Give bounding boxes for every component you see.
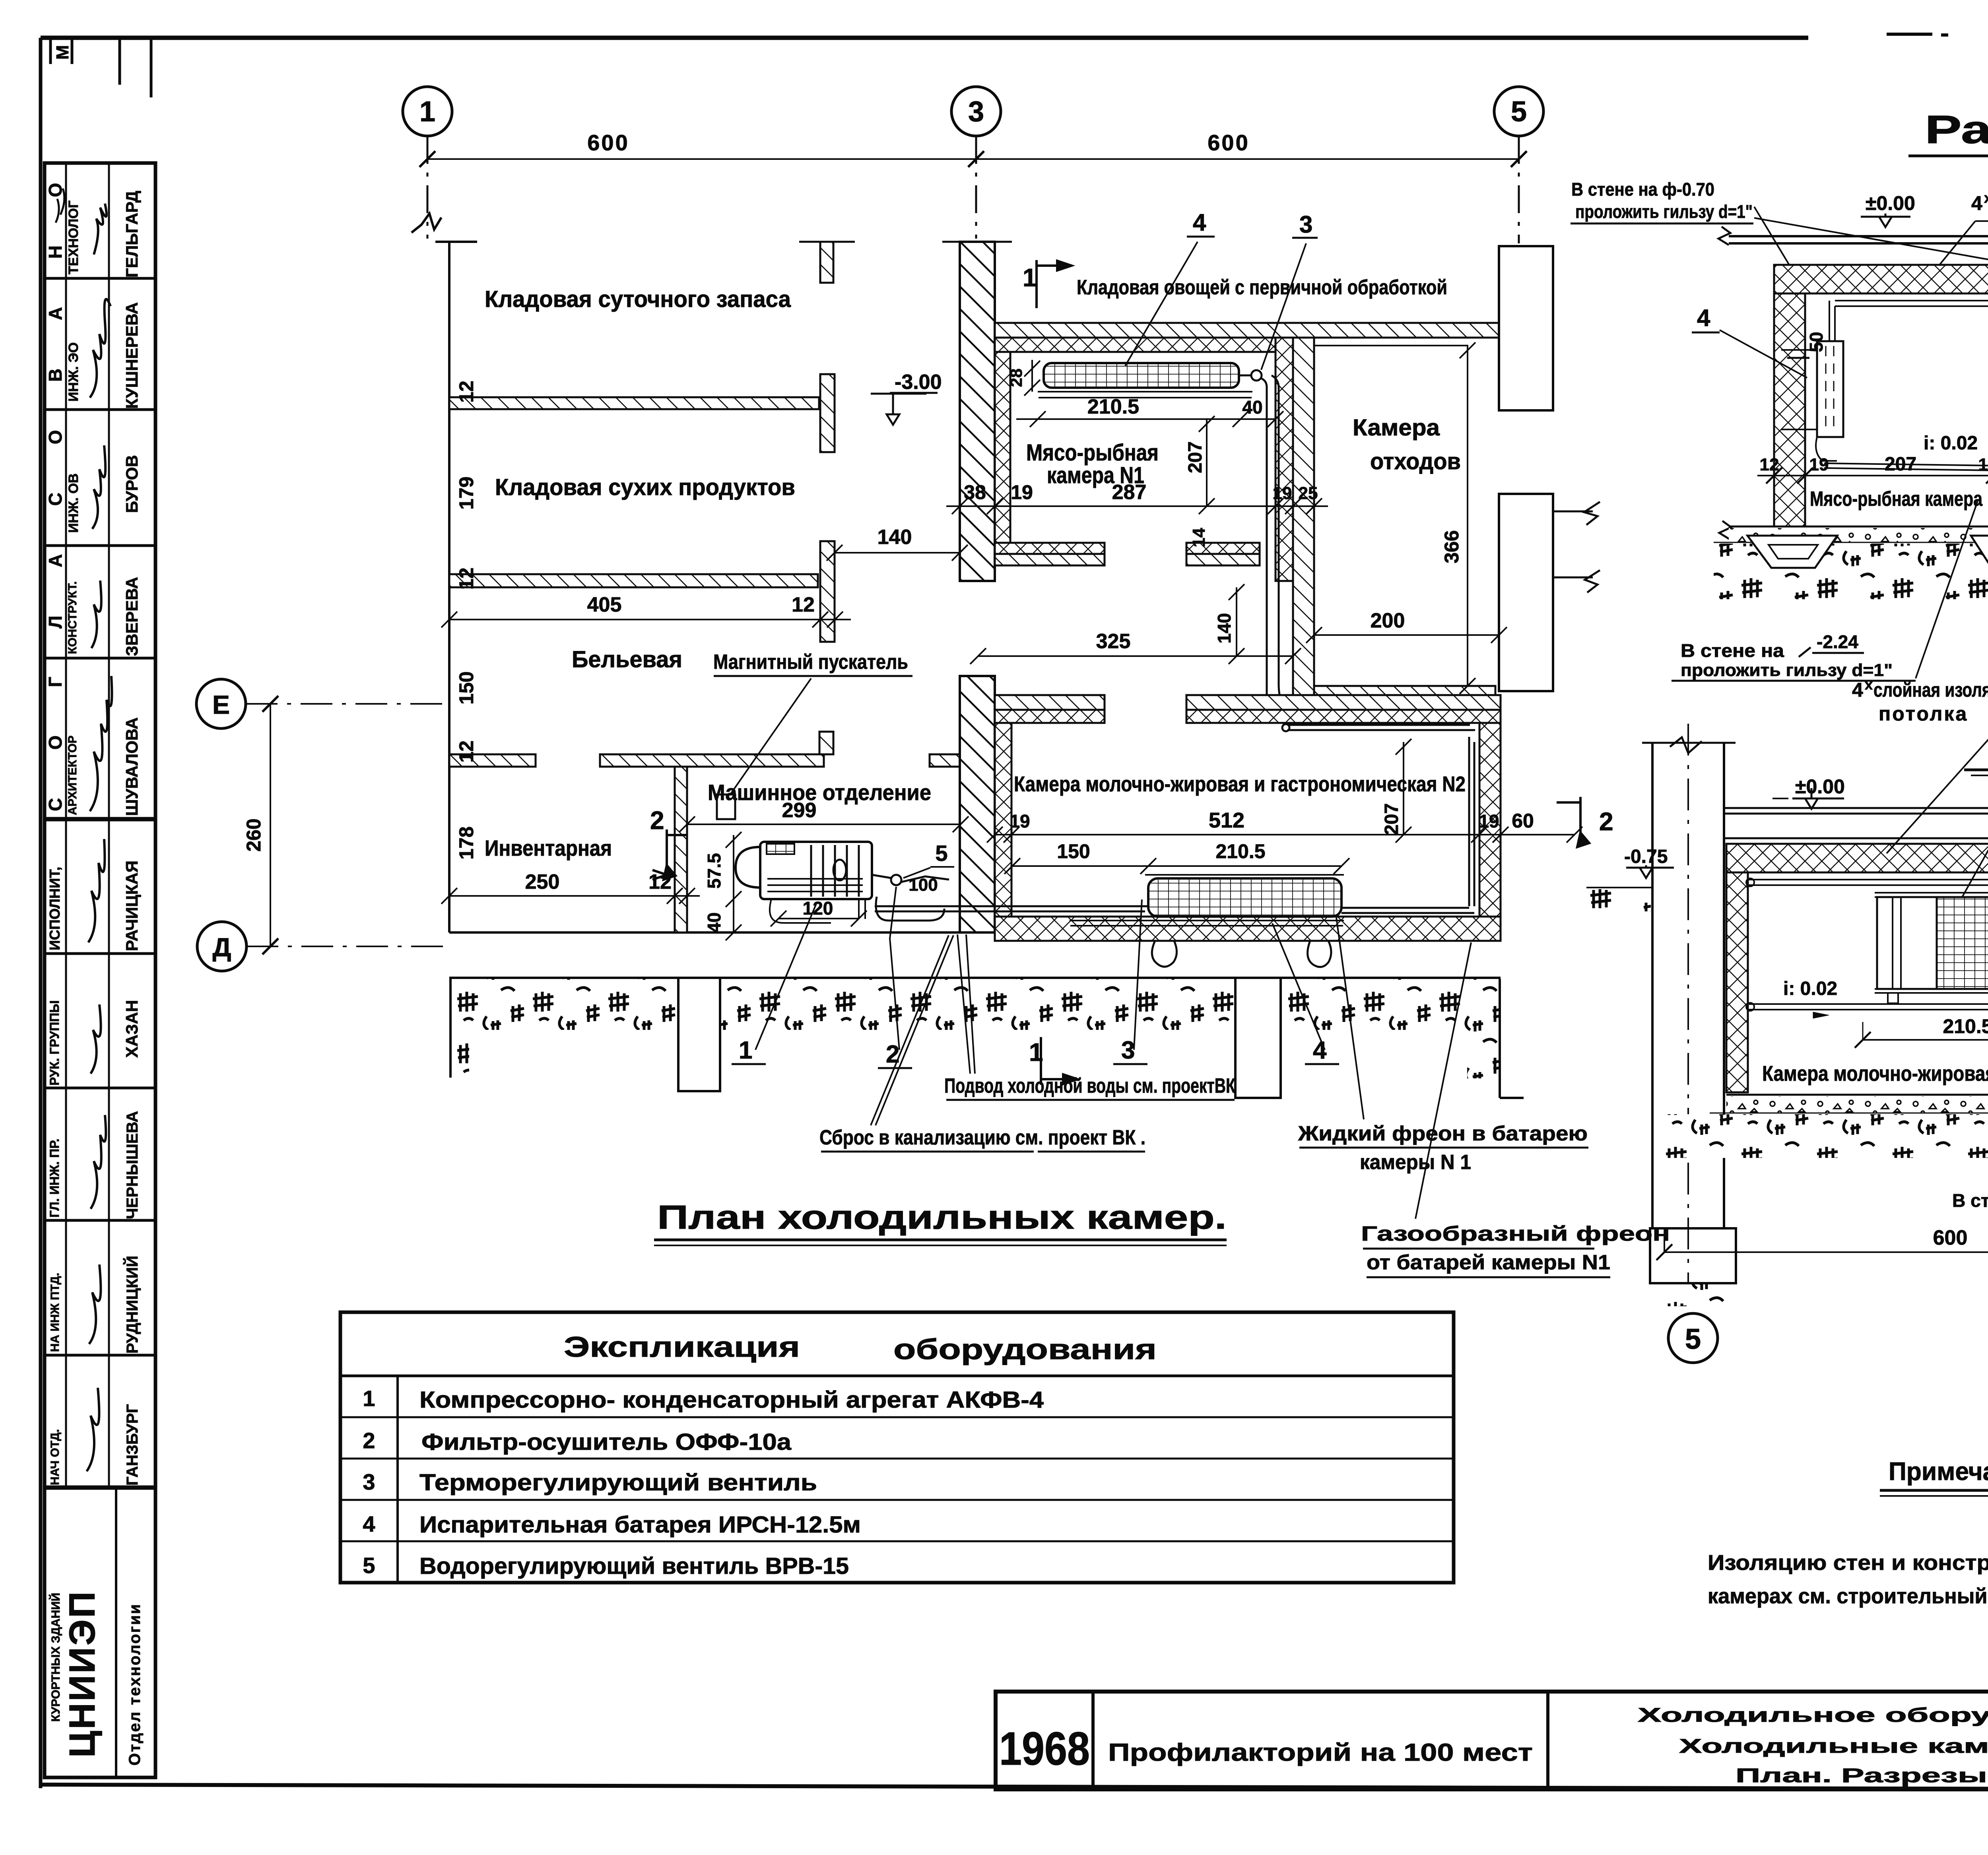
signatures squiggles [56, 188, 112, 1471]
chamber N2 right insulation [1479, 723, 1501, 941]
svg-text:366: 366 [1441, 530, 1463, 563]
-3.00 level mark plan [871, 394, 926, 425]
svg-text:ЧЕРНЫШЕВА: ЧЕРНЫШЕВА [124, 1111, 141, 1219]
dim line 210.5/150 [1863, 1039, 1988, 1041]
svg-text:ТЕХНОЛОГ: ТЕХНОЛОГ [66, 200, 81, 274]
valve + small lines right of unit [891, 875, 901, 885]
dim line 325 [978, 655, 1293, 657]
svg-text:Магнитный пускатель: Магнитный пускатель [713, 651, 908, 674]
svg-text:12: 12 [455, 567, 478, 590]
svg-text:ЗВЕРЕВА: ЗВЕРЕВА [122, 577, 141, 656]
svg-text:50: 50 [1806, 332, 1827, 352]
svg-text:40: 40 [1242, 397, 1262, 418]
svg-text:1: 1 [739, 1037, 752, 1064]
break symbol on axis 1 [412, 214, 441, 233]
chamber N2 bottom wall [995, 917, 1501, 941]
svg-text:Примечание: Примечание [1889, 1457, 1988, 1486]
dim 366 vertical waste chamber [1460, 342, 1475, 694]
svg-text:200: 200 [1371, 609, 1405, 632]
svg-text:Камера молочно-жировая и га: Камера молочно-жировая и гастрономическа… [1762, 1062, 1988, 1086]
svg-text:Компрессорно- конденсаторный: Компрессорно- конденсаторный агрегат АКФ… [419, 1387, 1044, 1413]
svg-text:Кладовая овощей с первичной: Кладовая овощей с первичной обработкой [1077, 276, 1447, 299]
svg-text:4: 4 [1852, 679, 1864, 701]
leaders from labels to parts [755, 902, 817, 1050]
left exterior wall [435, 242, 477, 932]
freon riser pipes from N1 [1262, 375, 1284, 706]
svg-text:х: х [1984, 190, 1988, 206]
wall break ticks right of pillar [1553, 502, 1600, 592]
sloped floor pipe [1824, 463, 1988, 476]
svg-text:Инвентарная: Инвентарная [485, 835, 612, 860]
top pillar stub at x2066 [820, 242, 833, 283]
svg-text:140: 140 [1214, 613, 1235, 644]
svg-text:-3.00: -3.00 [895, 371, 942, 394]
svg-text:60: 60 [1512, 810, 1534, 832]
svg-text:Водорегулирующий вентиль ВРВ: Водорегулирующий вентиль ВРВ-15 [419, 1553, 849, 1579]
+-0.00 level flag [1861, 214, 1910, 227]
svg-text:2: 2 [886, 1041, 899, 1068]
svg-text:38: 38 [964, 481, 986, 503]
left column axis5 [1652, 743, 1724, 1228]
grid axis stems dash-dot [427, 136, 429, 239]
svg-text:12: 12 [455, 381, 478, 403]
svg-text:150: 150 [455, 671, 478, 704]
label underlines [732, 1064, 1339, 1068]
svg-text:В стене на: В стене на [1681, 640, 1784, 661]
chamber N1 bottom stub left [995, 543, 1105, 554]
svg-text:Мясо-рыбная: Мясо-рыбная [1026, 440, 1159, 466]
svg-text:Фильтр-осушитель ОФФ-10а: Фильтр-осушитель ОФФ-10а [421, 1429, 792, 1455]
svg-text:12: 12 [1760, 455, 1779, 474]
svg-text:камеры N 1: камеры N 1 [1360, 1151, 1471, 1174]
svg-text:120: 120 [803, 898, 833, 919]
svg-text:5: 5 [935, 841, 947, 866]
section mark 2 right [1557, 797, 1580, 845]
svg-text:Сброс в канализацию см. пр: Сброс в канализацию см. проект ВК . [819, 1126, 1145, 1149]
grid circle E [196, 679, 246, 728]
plan bottom floor line [449, 931, 961, 934]
svg-text:5: 5 [1685, 1323, 1701, 1355]
sheet frame top line [41, 36, 1808, 40]
svg-text:КУШНЕРЕВА: КУШНЕРЕВА [122, 302, 141, 409]
plan room labels and annotations [485, 276, 1670, 1274]
svg-text:4: 4 [1697, 305, 1710, 331]
svg-text:150: 150 [1057, 840, 1090, 862]
compressor unit AKFV-4 plan [760, 842, 872, 899]
svg-text:179: 179 [455, 476, 478, 509]
top pipe [1835, 301, 1988, 306]
chamber N2 left insulation [995, 723, 1011, 917]
svg-text:207: 207 [1885, 454, 1916, 475]
dim line 405/12 [449, 619, 851, 620]
ceiling slab [1724, 808, 1988, 838]
260 vertical dim line [270, 704, 271, 946]
dim 600 [1664, 1251, 1988, 1253]
svg-text:2: 2 [1599, 807, 1613, 836]
chamber N2 top wall (diag+cross) with door gap [995, 695, 1105, 710]
dim 207 vertical N1 [1199, 416, 1215, 514]
pillar at band1 end [820, 374, 835, 452]
leaders 4 3 2 1 [1962, 794, 1988, 897]
strip column dividers [66, 163, 109, 1488]
svg-text:Профилакторий на 100 мест: Профилакторий на 100 мест [1108, 1739, 1533, 1766]
svg-text:ЦНИИЭП: ЦНИИЭП [62, 1590, 103, 1758]
left battery section [1817, 341, 1843, 437]
dim line 210.5/40 chamber N1 [1016, 418, 1276, 420]
interior wall band 2 (12) [449, 574, 818, 587]
evaporator battery N2 [1148, 878, 1342, 917]
svg-text:405: 405 [587, 593, 622, 616]
concrete floor [1726, 1094, 1988, 1096]
svg-text:3: 3 [1121, 1037, 1135, 1064]
dim line bottom [1757, 475, 1988, 476]
svg-text:i: 0.02: i: 0.02 [1924, 433, 1978, 454]
svg-text:12: 12 [648, 870, 672, 894]
svg-text:57.5: 57.5 [704, 853, 724, 889]
level flags [1792, 788, 1844, 809]
svg-text:2: 2 [363, 1428, 375, 1453]
svg-text:Испарительная батарея ИРСН-1: Испарительная батарея ИРСН-12.5м [419, 1512, 861, 1538]
svg-text:19: 19 [1273, 484, 1292, 503]
chamber N1 right insulation [1276, 338, 1293, 581]
svg-text:1: 1 [419, 96, 435, 128]
dim line 200 [1306, 627, 1507, 643]
svg-text:4: 4 [1193, 209, 1206, 236]
svg-text:100: 100 [909, 875, 938, 895]
svg-text:АРХИТЕКТОР: АРХИТЕКТОР [66, 736, 79, 815]
svg-text:250: 250 [525, 870, 560, 894]
circle 5 [1668, 1313, 1718, 1363]
svg-text:4: 4 [363, 1511, 375, 1536]
leaders bottom [1916, 501, 1978, 678]
svg-text:207: 207 [1185, 441, 1206, 473]
svg-text:Камера молочно-жировая и га: Камера молочно-жировая и гастрономическа… [1014, 772, 1466, 796]
dim line 512 N2 [995, 834, 1574, 835]
top pipe [1748, 880, 1988, 885]
svg-text:19: 19 [1010, 811, 1030, 831]
pillar at band2 end [820, 541, 835, 642]
svg-text:207: 207 [1381, 803, 1402, 835]
svg-text:Отдел технологии: Отдел технологии [126, 1603, 144, 1766]
gaseous freon leader [1415, 942, 1471, 1219]
svg-text:2: 2 [650, 806, 664, 835]
dim 207 vertical N2 [1396, 739, 1411, 843]
grid-3 thick wall lower [960, 676, 995, 932]
svg-text:проложить гильзу d=1": проложить гильзу d=1" [1575, 201, 1753, 222]
interior wall band 3 segments (12) [449, 754, 536, 767]
frame top ticks [50, 38, 151, 97]
left ground pit pier [678, 979, 720, 1091]
sheet frame bottom line [41, 1785, 1988, 1790]
wall drip blobs under N2 [1152, 941, 1176, 967]
svg-text:Жидкий фреон в батарею: Жидкий фреон в батарею [1298, 1122, 1588, 1145]
svg-text:19: 19 [1809, 455, 1829, 474]
strip row lines [45, 278, 155, 1488]
left wall insulation [1726, 872, 1748, 1092]
svg-text:12: 12 [792, 593, 815, 616]
svg-text:19: 19 [1011, 481, 1033, 503]
svg-text:ШУВАЛОВА: ШУВАЛОВА [122, 717, 141, 816]
svg-text:Подвод холодной воды см. пр: Подвод холодной воды см. проектВК [944, 1074, 1235, 1097]
svg-text:ИНЖ. ЭО: ИНЖ. ЭО [66, 342, 81, 402]
svg-text:28: 28 [1007, 369, 1025, 387]
svg-text:210.5: 210.5 [1215, 840, 1265, 862]
ceiling insulation band [1774, 265, 1988, 293]
ceiling insulation band [1726, 844, 1988, 872]
chamber N1 top wall outer (diag) [995, 323, 1501, 338]
svg-text:М: М [53, 45, 72, 60]
insulation label leader [1887, 700, 1988, 853]
grid circle 3 [951, 87, 1001, 136]
ceiling slab [1729, 236, 1988, 243]
svg-text:3: 3 [363, 1469, 375, 1494]
grid circle D(Д) [197, 922, 247, 971]
starter leader [731, 678, 811, 794]
waste chamber bottom wall [1314, 686, 1495, 707]
section mark 1 top [1037, 260, 1057, 308]
underlines [714, 675, 912, 677]
svg-text:19: 19 [1479, 811, 1499, 831]
svg-text:Машинное отделение: Машинное отделение [708, 780, 931, 805]
fraction lines [1799, 647, 1864, 657]
structural wall right of N1 [1293, 338, 1314, 723]
svg-text:600: 600 [1208, 130, 1249, 155]
dim line 250/12 [449, 895, 700, 897]
svg-text:отходов: отходов [1370, 449, 1461, 474]
svg-text:План холодильных камер.: План холодильных камер. [657, 1198, 1227, 1236]
left wall [1774, 293, 1805, 526]
evaporator battery N1 [1044, 363, 1239, 388]
svg-text:РУК. ГРУППЫ: РУК. ГРУППЫ [47, 1000, 62, 1086]
svg-text:±0.00: ±0.00 [1866, 192, 1915, 214]
svg-text:210.5: 210.5 [1943, 1015, 1988, 1037]
svg-text:слойная изоляция: слойная изоляция [1873, 679, 1988, 701]
axis E dash-dot [246, 703, 450, 705]
svg-text:5: 5 [1511, 96, 1527, 128]
freon pipes in N2 / machine room [875, 906, 1148, 911]
machine dims verticals [726, 832, 742, 940]
water/sewer leaders [957, 934, 975, 1074]
dim line 150/210.5 N2 [1012, 865, 1342, 867]
evaporator battery section2 [1875, 893, 1988, 897]
svg-text:25: 25 [1299, 484, 1318, 503]
svg-text:4: 4 [1313, 1037, 1327, 1064]
title underline [1908, 155, 1988, 157]
foundation pads [1747, 536, 1837, 568]
svg-text:потолка: потолка [1879, 703, 1968, 725]
svg-text:ХАЗАН: ХАЗАН [122, 1000, 141, 1058]
svg-text:Экспликация: Экспликация [564, 1331, 800, 1363]
grid-3 thick wall upper [960, 242, 995, 581]
section mark 2 left [652, 829, 687, 880]
svg-text:ИСПОЛНИТ,: ИСПОЛНИТ, [47, 867, 63, 950]
svg-text:Кладовая сухих продуктов: Кладовая сухих продуктов [495, 474, 795, 500]
TRV valve N1 [1251, 370, 1262, 381]
grid circle 5 [1494, 87, 1543, 136]
svg-text:600: 600 [587, 130, 629, 155]
svg-text:40: 40 [704, 912, 724, 932]
svg-text:ГЛ. ИНЖ. ПР.: ГЛ. ИНЖ. ПР. [47, 1138, 62, 1218]
svg-text:Газообразный фреон: Газообразный фреон [1361, 1222, 1670, 1245]
svg-text:14: 14 [1189, 528, 1209, 547]
svg-text:Д: Д [212, 932, 231, 962]
svg-text:14: 14 [1978, 455, 1988, 474]
chamber N1 top wall insulation (cross) [995, 338, 1276, 352]
dim line 299 [687, 824, 961, 825]
grid circle 1 [403, 87, 452, 136]
svg-text:1968: 1968 [999, 1723, 1090, 1775]
svg-text:ГАНЗБУРГ: ГАНЗБУРГ [124, 1404, 141, 1486]
svg-text:i: 0.02: i: 0.02 [1783, 978, 1837, 999]
svg-text:1: 1 [363, 1386, 375, 1411]
right ground pit pier [1235, 979, 1281, 1098]
svg-text:КУРОРТНЫХ ЗДАНИЙ: КУРОРТНЫХ ЗДАНИЙ [49, 1593, 62, 1722]
svg-text:ГЕЛЬГАРД: ГЕЛЬГАРД [122, 191, 141, 278]
svg-text:План. Разрезы: План. Разрезы [1736, 1764, 1987, 1787]
svg-text:260: 260 [243, 818, 265, 851]
svg-text:БУРОВ: БУРОВ [122, 455, 141, 513]
dim line 287 [946, 505, 1328, 507]
magnetic starter box [717, 794, 735, 819]
svg-text:600: 600 [1933, 1226, 1968, 1249]
svg-text:Кладовая суточного запаса: Кладовая суточного запаса [485, 286, 791, 312]
svg-text:-2.24: -2.24 [1817, 631, 1858, 652]
interior wall band 1 (12) [449, 397, 819, 409]
svg-text:512: 512 [1209, 808, 1244, 832]
small ground at left -0.75 [1586, 887, 1652, 888]
svg-text:Разрез 1-1: Разрез 1-1 [1925, 107, 1988, 152]
svg-text:178: 178 [455, 826, 478, 859]
svg-text:1: 1 [1023, 263, 1037, 292]
top dimension line 600/600 [427, 158, 1519, 160]
svg-text:от батарей камеры N1: от батарей камеры N1 [1367, 1251, 1610, 1274]
svg-text:1: 1 [1029, 1038, 1043, 1066]
svg-text:4: 4 [1971, 192, 1982, 214]
svg-text:±0.00: ±0.00 [1795, 775, 1845, 798]
concrete floor band [1729, 526, 1988, 528]
svg-text:оборудования: оборудования [893, 1334, 1157, 1366]
ground hatch band under plan [449, 977, 1501, 979]
svg-text:12: 12 [455, 740, 478, 763]
plan: machine unit, ground, dims, texts [212, 96, 1613, 1098]
title underline [654, 1239, 1227, 1241]
svg-text:х: х [1865, 676, 1873, 693]
ground under floor [1714, 544, 1988, 599]
svg-text:Холодильные камеры: Холодильные камеры [1679, 1735, 1988, 1757]
svg-text:3: 3 [1299, 211, 1312, 238]
svg-text:камерах см. строительный че: камерах см. строительный чертеж — АС-023 [1708, 1584, 1988, 1608]
svg-text:Мясо-рыбная камера: Мясо-рыбная камера [1810, 488, 1983, 511]
dim 140 vertical [1229, 584, 1244, 664]
svg-text:В стене на: В стене на [1952, 1190, 1988, 1211]
chamber N1 bottom stub right [1186, 543, 1260, 554]
svg-text:РУДНИЦКИЙ: РУДНИЦКИЙ [123, 1256, 141, 1354]
grid5 pillar upper [1499, 246, 1553, 410]
svg-text:5: 5 [363, 1553, 375, 1578]
grid5 pillar lower [1499, 494, 1553, 691]
section mark 1 bottom [1041, 1037, 1063, 1085]
svg-text:Изоляцию стен и конструкцию: Изоляцию стен и конструкцию пола в холод… [1708, 1551, 1988, 1575]
svg-text:140: 140 [878, 526, 912, 549]
svg-text:210.5: 210.5 [1087, 395, 1139, 418]
liquid freon leader [1336, 915, 1364, 1119]
sheet frame left line [39, 38, 43, 1788]
svg-text:Терморегулирующий вентиль: Терморегулирующий вентиль [419, 1470, 817, 1496]
axis D dash-dot [247, 946, 450, 947]
svg-text:Бельевая: Бельевая [572, 647, 682, 672]
svg-text:РАЧИЦКАЯ: РАЧИЦКАЯ [122, 860, 141, 951]
svg-text:Камера: Камера [1353, 415, 1440, 441]
svg-text:НА ИНЖ ПТД.: НА ИНЖ ПТД. [49, 1273, 62, 1352]
lower pipe [1748, 1004, 1988, 1010]
title underline [1964, 769, 1988, 771]
svg-text:325: 325 [1096, 630, 1131, 653]
dim line 140 door [835, 552, 960, 554]
machine room inner wall [675, 767, 687, 932]
svg-text:КОНСТРУКТ.: КОНСТРУКТ. [66, 581, 79, 654]
svg-text:В стене на ф-0.70: В стене на ф-0.70 [1571, 179, 1714, 200]
svg-text:камера N1: камера N1 [1047, 462, 1144, 488]
chamber N1 left insulation [995, 352, 1010, 553]
svg-text:-0.75: -0.75 [1624, 846, 1668, 867]
leaders for 4 and 3 top [1187, 237, 1318, 238]
waste chamber inner outline [1314, 346, 1468, 686]
svg-text:НАЧ ОТД.: НАЧ ОТД. [49, 1429, 62, 1485]
svg-text:Е: Е [212, 690, 230, 719]
svg-text:проложить гильзу d=1": проложить гильзу d=1" [1681, 660, 1893, 680]
svg-text:ИНЖ. ОВ: ИНЖ. ОВ [66, 473, 81, 533]
svg-text:3: 3 [968, 96, 984, 128]
column footing [1650, 1228, 1736, 1283]
svg-text:Холодильное оборудование: Холодильное оборудование [1638, 1704, 1988, 1726]
-3.00 underline [890, 392, 938, 394]
strip outer box [45, 163, 155, 1777]
pillar above band3 [819, 732, 833, 754]
